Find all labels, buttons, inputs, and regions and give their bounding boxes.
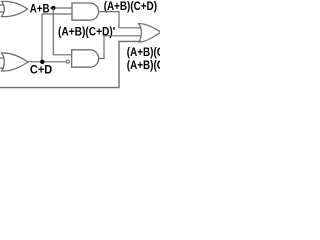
or-gate G2 (C+D): [2, 53, 29, 71]
wire AND G3 output to OR G5 top input: [99, 12, 142, 28]
wire G2 input stubs: [0, 58, 4, 68]
svg-text:A+B: A+B: [30, 1, 50, 15]
or-gate G5 (right, output off-canvas): [139, 24, 161, 42]
wire G1 input stubs: [0, 5, 4, 12]
svg-text:(A+B)(C+D): (A+B)(C+D): [127, 58, 160, 72]
wire AND G4 output to OR G5 middle input: [99, 36, 142, 59]
inverter bubble on AND G4 lower input: [66, 60, 69, 63]
wire long feedback from bottom-left to OR G5 bottom input: [0, 41, 142, 87]
wire C+D net: [28, 61, 66, 63]
node A+B junction dot: [51, 6, 55, 10]
and-gate G4: [72, 50, 99, 67]
or-gate G1 (A+B): [2, 1, 28, 16]
svg-text:C+D: C+D: [30, 63, 53, 77]
and-gate G3 ((A+B)(C+D)): [72, 3, 99, 20]
wire C+D riser to AND G3 bottom input: [42, 14, 72, 62]
wire A+B branch down to AND G4 top input: [53, 8, 71, 55]
node C+D junction dot: [40, 60, 44, 64]
wire A+B net to AND G3 top input: [50, 7, 72, 9]
